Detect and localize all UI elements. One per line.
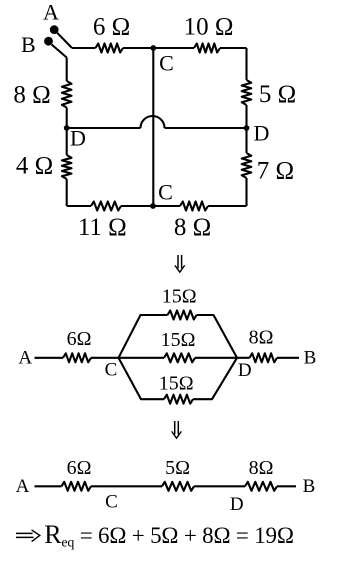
svg-text:C: C <box>105 360 118 381</box>
wire left lower <box>66 179 68 206</box>
svg-text:B: B <box>304 348 317 369</box>
svg-text:6Ω: 6Ω <box>67 457 92 479</box>
svg-text:4 Ω: 4 Ω <box>16 153 53 180</box>
resistor 5 ohm (bottom section) <box>162 482 194 491</box>
resistor 15 ohm (top branch) <box>168 311 197 320</box>
svg-text:15Ω: 15Ω <box>161 329 196 351</box>
node C bottom junction dot <box>150 203 156 209</box>
wire C to middle 15ohm <box>119 357 165 359</box>
wire bottom-middle <box>121 205 180 207</box>
resistor 6 ohm (top left) <box>96 44 124 53</box>
wire D segment (bottom) <box>194 485 245 487</box>
svg-text:A: A <box>18 348 32 369</box>
wire 8ohm to B (bottom) <box>277 485 296 487</box>
svg-text:D: D <box>254 121 270 146</box>
resistor 15 ohm (bottom branch) <box>164 395 193 404</box>
svg-text:A: A <box>43 0 59 25</box>
svg-text:C: C <box>159 51 174 76</box>
resistor 15 ohm (middle branch) <box>164 353 195 362</box>
resistor 6 ohm (bottom section) <box>62 482 92 491</box>
wire A to 6ohm (bottom) <box>35 485 62 487</box>
svg-text:6Ω: 6Ω <box>67 328 92 350</box>
svg-text:5Ω: 5Ω <box>165 457 190 479</box>
svg-text:8 Ω: 8 Ω <box>13 81 50 108</box>
resistor 8 ohm (bottom right) <box>180 202 208 211</box>
svg-text:D: D <box>70 126 86 151</box>
wire right through D <box>245 105 247 153</box>
wire 8ohm to B <box>277 357 299 359</box>
wire top-left <box>72 47 96 49</box>
svg-text:8Ω: 8Ω <box>249 457 274 479</box>
svg-text:D: D <box>230 494 244 515</box>
wire 6ohm to C <box>91 357 119 359</box>
wire D to 8ohm <box>237 357 250 359</box>
terminal A dot <box>50 25 59 34</box>
wire bottom branch to D diagonal <box>193 358 237 399</box>
svg-text:15Ω: 15Ω <box>159 373 194 395</box>
resistor 8 ohm (bottom section) <box>245 482 277 491</box>
svg-text:Req = 6Ω + 5Ω + 8Ω = 19Ω: Req = 6Ω + 5Ω + 8Ω = 19Ω <box>44 520 294 551</box>
wire C segment (bottom) <box>91 485 162 487</box>
wire C up-diagonal to top branch <box>119 315 168 358</box>
wire bottom-right <box>208 205 247 207</box>
wire left upper <box>66 58 68 82</box>
svg-text:6 Ω: 6 Ω <box>93 14 130 41</box>
svg-text:5 Ω: 5 Ω <box>259 81 296 108</box>
svg-text:8 Ω: 8 Ω <box>174 214 211 241</box>
wire crossover hump <box>141 116 165 128</box>
node D right junction dot <box>244 125 250 131</box>
svg-text:C: C <box>158 180 173 205</box>
resistor 10 ohm (top right) <box>194 44 220 53</box>
svg-text:7 Ω: 7 Ω <box>257 157 294 184</box>
svg-text:11 Ω: 11 Ω <box>78 214 127 241</box>
wire right lower <box>245 178 247 206</box>
switch blade from A <box>57 33 72 48</box>
switch blade from B <box>52 45 67 58</box>
svg-text:15Ω: 15Ω <box>162 286 197 308</box>
wire bottom-left <box>67 205 91 207</box>
double down-arrow 1 <box>175 255 185 272</box>
wire C down-diagonal to bottom branch <box>119 358 165 399</box>
wire top-middle <box>123 47 194 49</box>
svg-text:A: A <box>16 476 30 497</box>
resistor 11 ohm (bottom left) <box>91 202 121 211</box>
svg-text:C: C <box>105 492 118 513</box>
wire right upper <box>245 48 247 80</box>
svg-text:B: B <box>303 476 316 497</box>
wire left through D <box>66 108 68 156</box>
node D left junction dot <box>64 125 70 131</box>
svg-text:8Ω: 8Ω <box>249 327 274 349</box>
wire middle 15ohm to D <box>195 357 237 359</box>
double down-arrow 2 <box>172 421 182 438</box>
node C top junction dot <box>150 45 156 51</box>
resistor 5 ohm (right) <box>242 80 252 105</box>
svg-text:B: B <box>21 32 36 57</box>
wire top-right <box>220 47 247 49</box>
resistor 6 ohm (middle section) <box>63 353 91 362</box>
implies double arrow of equation <box>16 530 40 542</box>
resistor 8 ohm (left) <box>62 81 72 108</box>
resistor 8 ohm (middle section) <box>250 353 278 362</box>
wire centre vertical C-C <box>152 48 154 206</box>
resistor 4 ohm (left lower) <box>62 155 72 179</box>
wire D-D right part <box>165 127 247 129</box>
terminal B dot <box>44 37 53 46</box>
resistor 7 ohm (right lower) <box>242 153 252 178</box>
wire D-D left part <box>67 127 141 129</box>
svg-text:10 Ω: 10 Ω <box>184 14 234 41</box>
svg-text:D: D <box>238 360 252 381</box>
wire A to 6ohm <box>35 357 64 359</box>
wire top branch to D diagonal <box>197 315 238 358</box>
